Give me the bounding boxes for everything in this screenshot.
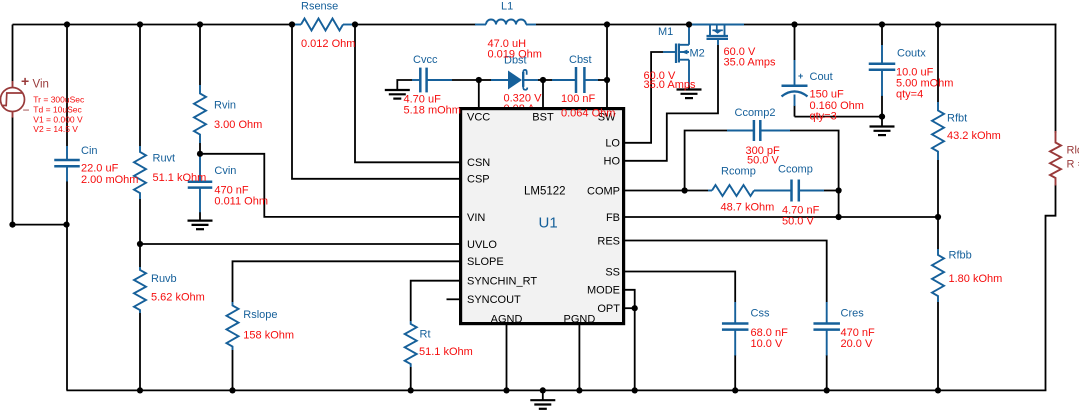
ground bottom center [530,399,555,401]
svg-text:Cvin: Cvin [214,165,236,177]
svg-text:M1: M1 [658,26,673,38]
svg-text:AGND: AGND [491,313,523,325]
wire HO route to M1 gate [625,45,718,161]
wire VCC pin vertical [478,80,480,108]
svg-text:Cin: Cin [81,145,98,157]
svg-text:Rt: Rt [420,329,431,341]
junction dots on VCC/BST/SW row [476,77,482,83]
wire Cbst right to SW [598,79,607,81]
junction dot FB divider node [935,214,941,220]
wire Cin branch [66,25,68,147]
svg-text:RES: RES [597,235,620,247]
svg-text:Rfbb: Rfbb [949,250,972,262]
junction dots on top rail [64,21,70,27]
svg-text:22.0 uF: 22.0 uF [81,163,119,175]
svg-text:OPT: OPT [597,303,620,315]
wire RES route to Cres [625,241,827,303]
wire Cout-Coutx bottom [795,116,883,118]
wire right edge upper [1055,24,1057,133]
svg-text:R = 1: R = 1 [1067,159,1079,171]
svg-text:0.064 Ohm: 0.064 Ohm [561,108,615,120]
wire AGND pin vertical [506,324,508,390]
svg-text:50.0 V: 50.0 V [747,155,779,167]
svg-text:HO: HO [604,156,621,168]
inductor L1 [475,24,486,26]
wire UVLO pin route [140,243,460,245]
wire MODE route to ground [625,290,635,391]
wire SYNCHIN_RT route to Rt [411,281,460,321]
wire SW pin vertical [606,25,608,109]
wire Cout bottom lead [794,105,796,117]
svg-text:Ccomp2: Ccomp2 [735,107,776,119]
svg-text:qty=3: qty=3 [810,111,837,123]
svg-text:Ruvb: Ruvb [151,273,177,285]
svg-text:Ccomp: Ccomp [778,164,813,176]
svg-text:48.7 kOhm: 48.7 kOhm [721,202,775,214]
svg-text:SLOPE: SLOPE [467,256,504,268]
ground near Cvcc [385,89,410,91]
wire SLOPE route to Rslope [233,261,461,302]
wire BST pin vertical [542,80,544,108]
svg-text:2.00 mOhm: 2.00 mOhm [81,174,138,186]
capacitor Cres [826,302,828,324]
svg-text:CSP: CSP [467,174,490,186]
wire Cvcc ground segment [397,80,412,90]
svg-text:Rfbt: Rfbt [947,113,967,125]
transistor M1 (high-side NMOS, rotated) [690,24,744,26]
svg-text:MODE: MODE [587,285,620,297]
svg-text:Rsense: Rsense [301,1,338,13]
svg-text:Css: Css [751,308,770,320]
svg-text:Ruvt: Ruvt [153,153,176,165]
svg-text:Tr = 300uSec: Tr = 300uSec [33,95,85,105]
transistor M2 (low-side NMOS) [675,44,677,64]
svg-text:35.0 Amps: 35.0 Amps [724,57,776,69]
wire Cres bottom lead [826,355,828,390]
capacitor Css [734,302,736,324]
wire SS route to Css [625,272,735,303]
svg-text:BST: BST [532,111,554,123]
svg-text:20.0 V: 20.0 V [841,338,873,350]
svg-text:−: − [23,103,30,117]
wire bottom rail [67,389,1047,391]
wire Cvin ground stem [199,212,201,221]
resistor Rvin [194,85,206,143]
svg-text:SS: SS [605,266,620,278]
svg-text:51.1 kOhm: 51.1 kOhm [419,346,473,358]
wire bottom ground stem [542,390,544,400]
wire Rfbb bottom lead [937,302,939,390]
svg-text:Cvcc: Cvcc [413,54,438,66]
svg-text:UVLO: UVLO [467,239,497,251]
svg-text:Rcomp: Rcomp [721,166,756,178]
wire Dbst anode lead black [479,79,491,81]
wire Ruvb bottom lead [139,313,141,390]
wire Rvin bottom lead [199,143,201,154]
wire M2 ground stem [688,85,690,90]
svg-text:U1: U1 [539,215,558,232]
wire PGND pin vertical [578,324,580,390]
resistor Rload (dark red) [1055,131,1057,140]
wire Rt bottom lead [410,367,412,390]
svg-text:V2 = 14.5 V: V2 = 14.5 V [33,124,78,134]
junction dots on bottom rail [137,387,143,393]
junction dots COMP network [682,187,688,193]
wire Coutx top lead [881,25,883,46]
svg-text:V1 = 0.000 V: V1 = 0.000 V [33,114,83,124]
wire SYNCOUT stub [447,298,461,300]
svg-text:VIN: VIN [467,212,485,224]
svg-text:LM5122: LM5122 [524,186,566,198]
svg-text:158 kOhm: 158 kOhm [243,330,294,342]
svg-text:3.00 Ohm: 3.00 Ohm [214,119,262,131]
svg-text:+: + [21,73,29,89]
ground below Cvin [188,220,213,222]
svg-text:Vin: Vin [33,79,49,91]
resistor Rcomp [708,190,712,192]
svg-text:Cout: Cout [810,71,833,83]
wire Vin top lead [12,25,14,82]
svg-text:51.1 kOhm: 51.1 kOhm [153,172,207,184]
wire Ruvt-to-UVLO node [139,199,141,267]
svg-text:VCC: VCC [467,111,490,123]
svg-text:10.0 V: 10.0 V [751,338,783,350]
resistor Rt [405,321,417,367]
wire VIN pin route [200,154,460,217]
svg-text:35.0 Amps: 35.0 Amps [644,79,696,91]
svg-text:0.019 Ohm: 0.019 Ohm [488,49,542,61]
wire Rfbb top lead [937,217,939,249]
wire Rfbt top lead [937,25,939,103]
wire Ruvt branch upper [139,25,141,147]
voltage source Vin [12,81,14,88]
svg-text:SYNCOUT: SYNCOUT [467,294,521,306]
wire CSP route from Rsense left [292,25,460,179]
svg-text:50.0 V: 50.0 V [782,216,814,228]
wire Ccomp2 right branch [790,131,839,218]
wire Cvcc to VCC node [452,79,479,81]
wire Css bottom lead [734,355,736,390]
wire COMP pin lead [625,190,708,192]
svg-text:CSN: CSN [467,157,490,169]
ground below M2 [677,88,702,90]
svg-text:43.2 kOhm: 43.2 kOhm [947,130,1001,142]
svg-text:L1: L1 [501,1,513,13]
wire Rslope bottom lead [232,350,234,390]
svg-text:Rslope: Rslope [243,309,277,321]
resistor Ruvt [134,146,146,199]
wire LO route to M2 gate [625,52,663,143]
svg-text:LO: LO [605,138,620,150]
svg-text:150 uF: 150 uF [810,89,845,101]
capacitor Cvcc [419,68,422,93]
wire Vin bottom lead to Cin bottom [13,117,67,225]
wire CSN route from Rsense right [355,25,460,163]
capacitor Cin [66,146,68,160]
capacitor Cvin [199,154,201,182]
svg-text:qty=4: qty=4 [896,89,923,101]
svg-text:COMP: COMP [587,185,620,197]
junction dot OPT [632,305,638,311]
junction dot Cout bottom [879,114,885,120]
wire top rail output section [744,24,1056,26]
wire FB route [625,216,938,218]
wire Rfbt to FB node [937,160,939,217]
wire right edge lower with jog [1046,185,1056,391]
resistor Rfbb [932,249,944,302]
capacitor Ccomp2 [727,130,754,132]
wire Ccomp2 left branch [685,131,727,191]
resistor Rslope [227,302,239,350]
op-amp U1 body (LM5122 IC) [461,109,624,324]
svg-text:Cbst: Cbst [569,54,592,66]
svg-text:5.18 mOhm: 5.18 mOhm [404,105,461,117]
capacitor Ccomp [790,180,793,202]
svg-text:5.62 kOhm: 5.62 kOhm [151,292,205,304]
wire Cout top lead [794,25,796,61]
wire top rail L1-to-SW section [536,24,690,26]
svg-text:100 nF: 100 nF [561,93,596,105]
svg-text:Coutx: Coutx [897,48,926,60]
svg-text:1.80 kOhm: 1.80 kOhm [949,273,1003,285]
junction dot Cvin top node [197,151,203,157]
diode Dbst (schottky) [491,79,508,81]
wire Coutx ground stem [881,117,883,127]
svg-text:Cres: Cres [841,308,865,320]
resistor Ruvb [134,267,146,313]
svg-text:0.012 Ohm: 0.012 Ohm [301,38,355,50]
wire Dbst cathode to BST node [538,79,552,81]
svg-text:Rvin: Rvin [214,100,236,112]
wire Ccomp right lead black [824,190,839,192]
wire Coutx bottom lead [881,95,883,117]
wire top rail mid section [355,24,476,26]
svg-text:FB: FB [606,212,620,224]
svg-text:0.011 Ohm: 0.011 Ohm [214,196,268,208]
wire Rvin branch upper [199,25,201,86]
resistor Rsense [292,24,301,26]
junction dots Vin/Cin bottom [9,222,15,228]
junction dot UVLO node [137,241,143,247]
capacitor Coutx [881,45,883,64]
svg-text:Td = 10uSec: Td = 10uSec [33,104,82,114]
svg-text:SYNCHIN_RT: SYNCHIN_RT [467,276,537,288]
wire OPT stub [625,307,635,309]
svg-text:M2: M2 [690,48,705,60]
capacitor Cbst [552,79,576,81]
svg-text:PGND: PGND [564,313,596,325]
ground below Coutx [870,125,895,127]
wire top rail left section [13,24,293,26]
svg-text:0.320 V: 0.320 V [504,93,543,105]
capacitor Cout (polarized) [794,60,796,86]
svg-text:Rloa: Rloa [1067,145,1079,157]
resistor Rfbt [932,102,944,160]
svg-text:+: + [798,71,803,81]
